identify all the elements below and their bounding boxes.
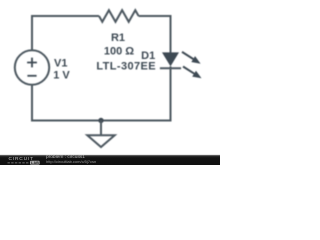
svg-text:1 V: 1 V [53,70,70,82]
svg-text:100 Ω: 100 Ω [104,45,134,57]
LED D1 triangle (anode) [162,52,179,66]
wire: resistor R1 to LED D1 anode (top-right corner) [139,16,171,53]
footer CircuitLab logo wire and LAB box [8,161,40,165]
footer watermark bar [0,155,220,165]
voltage source V1 circle [15,50,49,84]
svg-text:R1: R1 [111,32,125,44]
LED D1 emission arrow 1 [182,52,201,64]
LED D1 cathode bar [160,67,181,69]
wire: ground stub [100,121,102,136]
ground [87,135,114,147]
wire: V1 top terminal up and across to resistor R1 [32,16,99,51]
voltage source V1 plus sign [27,58,37,68]
wire: LED D1 cathode down and bottom rail to V1 bottom terminal [32,66,171,120]
resistor R1 [99,10,139,22]
node: junction of ground with bottom rail [98,118,103,123]
voltage source V1 minus sign [27,75,36,77]
svg-text:LTL-307EE: LTL-307EE [96,60,156,72]
svg-text:http://circuitlab.com/c/5j7csn: http://circuitlab.com/c/5j7csn [46,159,96,164]
LED D1 emission arrow 2 [183,67,202,79]
svg-text:LAB: LAB [31,161,39,165]
svg-text:V1: V1 [54,58,67,70]
